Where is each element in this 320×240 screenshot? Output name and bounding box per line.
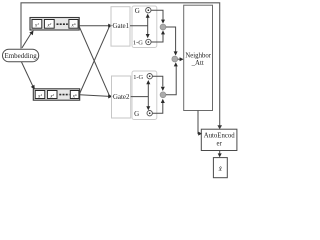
bottom vector cell 2 — [47, 91, 57, 99]
wire 1-G-mult to bottom sum — [153, 76, 163, 86]
wire 1-G-mult to top sum — [151, 34, 163, 42]
Gate2 light box — [112, 76, 131, 118]
wire top row to Gate1 (horizontal) — [79, 25, 109, 27]
svg-text:AutoEncod: AutoEncod — [204, 133, 236, 140]
top vector cell 1 — [32, 20, 42, 29]
svg-text:xⁿ: xⁿ — [72, 94, 77, 99]
svg-text:1-G: 1-G — [133, 40, 143, 47]
svg-text:Neighbor: Neighbor — [185, 52, 211, 59]
bottom vector cell n — [70, 91, 79, 99]
sum node middle (gray) — [172, 56, 178, 62]
svg-text:1-G: 1-G — [133, 74, 143, 81]
bottom gate-split light box — [132, 71, 157, 120]
arrowhead down to G mult bottom — [146, 106, 150, 110]
wire Gate1 to split stem — [130, 25, 148, 27]
svg-text:xⁿ: xⁿ — [71, 24, 76, 29]
top vector cell n — [69, 20, 78, 29]
wire top sum to middle sum — [166, 27, 176, 52]
wire Gate2 to split stem — [131, 96, 149, 98]
mult odot G bottom — [147, 111, 152, 116]
top vector dots — [57, 23, 68, 25]
wire AutoEncoder to xhat box — [219, 151, 221, 155]
xhat output box — [213, 158, 227, 178]
svg-text:x²: x² — [49, 93, 54, 99]
svg-text:er: er — [217, 141, 223, 148]
arrowhead up to 1-G mult bottom — [146, 80, 150, 84]
sum node top (gray) — [160, 24, 166, 30]
arrowhead into Gate1 — [108, 24, 112, 28]
svg-text:Gate1: Gate1 — [112, 22, 129, 30]
split stem vertical (bottom group) — [147, 83, 149, 108]
wire top row to Gate2 (diagonal) — [79, 27, 109, 96]
wire bottom row to Gate2 (horizontal) — [80, 95, 110, 97]
svg-text:x̂: x̂ — [218, 165, 223, 173]
mult odot G top — [146, 8, 151, 13]
split stem vertical (top group) — [147, 17, 149, 36]
svg-text:x¹: x¹ — [34, 23, 39, 29]
wire middle sum into Neighbor_Att — [178, 58, 181, 60]
wire Embedding to bottom vector row (arrow down-right) — [22, 62, 34, 87]
bottom vector row outer box — [33, 89, 79, 100]
arrowhead down to 1-G mult — [146, 34, 150, 38]
bottom vector dots — [59, 94, 69, 96]
svg-text:G: G — [134, 110, 139, 118]
Gate1 light box — [111, 7, 130, 46]
svg-text:Gate2: Gate2 — [113, 93, 130, 101]
wire bottom row to Gate1 (diagonal) — [80, 26, 110, 93]
top vector cell 2 — [44, 20, 54, 29]
wire G-mult to top sum — [151, 10, 163, 20]
arrowhead into AutoEncoder top — [217, 125, 222, 129]
mult odot 1-G bottom — [147, 74, 152, 79]
bottom vector cell 1 — [35, 91, 45, 99]
AutoEncoder box — [201, 129, 237, 150]
svg-text:_Att: _Att — [191, 60, 204, 67]
top vector row outer box — [30, 18, 79, 31]
wire Embedding to top vector row (arrow up-right) — [22, 34, 31, 48]
svg-text:x²: x² — [46, 23, 51, 29]
svg-text:G: G — [135, 7, 140, 15]
mult odot 1-G top — [146, 39, 151, 44]
wire Neighbor_Att to AutoEncoder — [198, 111, 199, 134]
wire bottom sum to middle sum — [166, 66, 176, 95]
arrowhead into Gate2 — [108, 94, 112, 98]
wire skip-connection frame from Embedding top, across top, down right into AutoEncoder — [21, 3, 220, 126]
arrowhead up to G mult — [146, 14, 150, 18]
Embedding ellipse — [3, 49, 39, 62]
svg-text:Embedding: Embedding — [4, 52, 37, 60]
Neighbor_Att box — [184, 5, 213, 110]
sum node bottom (gray) — [160, 92, 166, 98]
top gate-split light box — [132, 6, 157, 48]
svg-text:x¹: x¹ — [37, 93, 42, 99]
wire G-mult to bottom sum — [153, 103, 163, 113]
